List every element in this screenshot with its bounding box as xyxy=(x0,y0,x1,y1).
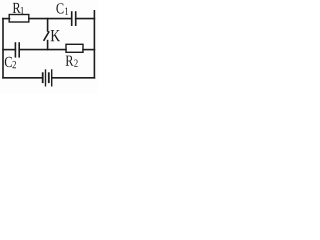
switch K xyxy=(44,19,60,50)
wire middle rail right segment xyxy=(83,49,94,51)
capacitor C2 xyxy=(5,43,19,68)
capacitor C1 xyxy=(56,3,75,25)
battery B1 xyxy=(43,70,52,86)
wire right border xyxy=(93,11,95,78)
resistor R1 xyxy=(9,3,29,22)
wire middle rail left segment xyxy=(3,49,15,51)
wire left border xyxy=(2,19,4,78)
wire top rail left segment xyxy=(3,18,10,20)
wire bottom rail right segment xyxy=(52,77,94,79)
wire middle rail center segment xyxy=(19,49,66,51)
wire bottom rail left segment xyxy=(3,77,42,79)
wire top rail right segment xyxy=(76,18,95,20)
resistor R2 xyxy=(66,44,83,67)
wire top rail middle segment xyxy=(29,18,72,20)
